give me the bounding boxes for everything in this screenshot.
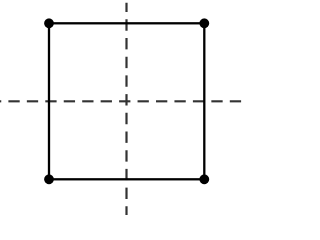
vertex dot top-left [44, 18, 54, 28]
vertex dot top-right [199, 18, 209, 28]
vertical axis of symmetry (dashed) [125, 3, 127, 215]
vertex dot bottom-right [199, 174, 209, 184]
square [49, 23, 204, 179]
vertex dot bottom-left [44, 174, 54, 184]
horizontal axis of symmetry (dashed) [0, 100, 241, 102]
